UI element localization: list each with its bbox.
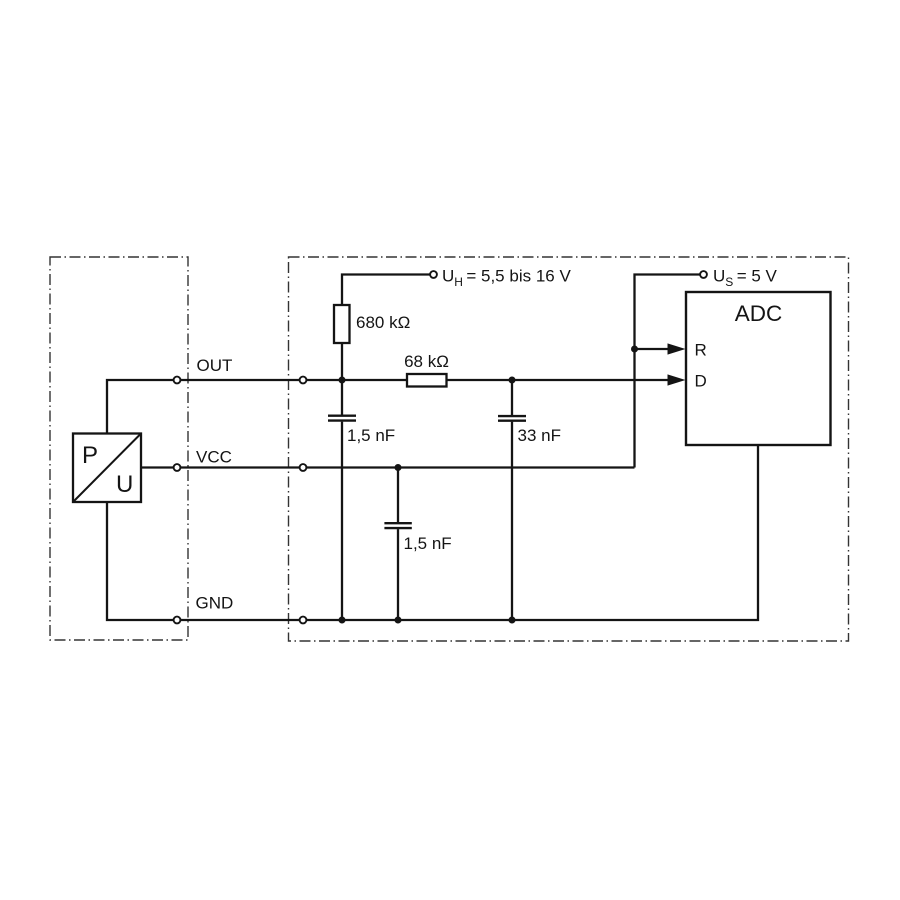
wire: US supply feed down to VCC net (635, 275, 701, 468)
junction dot: OUT at R1/C1 (339, 377, 346, 384)
wire: VCC net from sensor to supply branch (141, 466, 635, 468)
junction dot: OUT at C2 (509, 377, 516, 384)
wire: OUT net continuation from R2 to ADC D input (447, 379, 673, 381)
wire: R1 bottom lead to OUT node (341, 343, 343, 380)
sensor enclosure (dash-dot border) (50, 257, 188, 640)
svg-text:U: U (116, 471, 133, 498)
junction dot: GND at C2 (509, 617, 516, 624)
svg-text:VCC: VCC (196, 448, 232, 467)
svg-text:68 kΩ: 68 kΩ (404, 352, 449, 371)
terminal: GND at circuit boundary (300, 617, 307, 624)
svg-text:ADC: ADC (735, 301, 783, 326)
svg-text:OUT: OUT (197, 356, 233, 375)
ADC block U1 (686, 292, 831, 445)
terminal: OUT at sensor boundary (174, 377, 181, 384)
terminal: GND at sensor boundary (174, 617, 181, 624)
svg-text:1,5 nF: 1,5 nF (347, 426, 395, 445)
svg-text:33 nF: 33 nF (518, 426, 561, 445)
wire: C2 bottom lead to GND (511, 422, 513, 620)
wire: C3 bottom lead to GND (397, 529, 399, 620)
svg-text:R: R (695, 341, 707, 360)
terminal: OUT at circuit boundary (300, 377, 307, 384)
terminal: VCC at sensor boundary (174, 464, 181, 471)
wire: C1 bottom lead to GND (341, 422, 343, 620)
terminal: US supply (700, 271, 707, 278)
wire: C2 top lead (511, 380, 513, 415)
arrowhead into ADC D input (668, 374, 686, 385)
capacitor C3 1,5 nF (384, 523, 411, 528)
junction dot: VCC at C3 (395, 464, 402, 471)
svg-text:1,5 nF: 1,5 nF (404, 534, 452, 553)
svg-text:D: D (695, 372, 707, 391)
capacitor C1 1,5 nF (328, 416, 356, 421)
wire: UH supply feed down to resistor R1 (342, 275, 431, 306)
terminal: VCC at circuit boundary (300, 464, 307, 471)
wire: GND net from sensor around to ADC bottom pin (107, 445, 758, 620)
svg-text:680 kΩ: 680 kΩ (356, 313, 410, 332)
arrowhead into ADC R input (668, 343, 686, 354)
resistor R1 680 kOhm (334, 305, 350, 343)
junction dot: US branch to R input (631, 346, 638, 353)
wire: C1 top lead (341, 380, 343, 415)
terminal: UH supply (430, 271, 437, 278)
svg-text:P: P (82, 442, 98, 469)
sensor element P/U box (73, 434, 141, 503)
circuit enclosure (dash-dot border) (289, 257, 849, 641)
wire: C3 top lead (397, 468, 399, 523)
resistor R2 68 kOhm (407, 374, 447, 387)
junction dot: GND at C1 (339, 617, 346, 624)
capacitor C2 33 nF (498, 416, 526, 421)
junction dot: GND at C3 (395, 617, 402, 624)
svg-text:GND: GND (196, 594, 234, 613)
wire: OUT net (sensor riser and horizontal run to resistor R2) (107, 380, 407, 434)
wire: branch to ADC R input (635, 348, 673, 350)
